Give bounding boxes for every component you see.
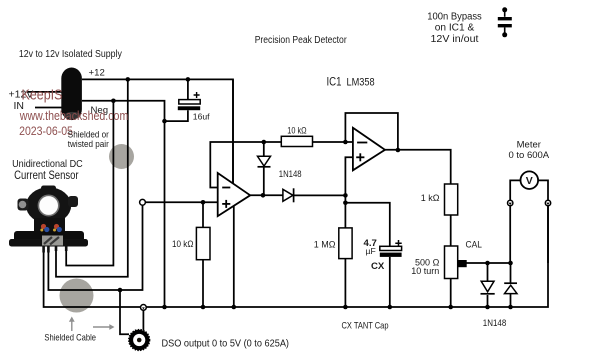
- wire diode D3 leads: [487, 263, 489, 281]
- svg-text:DSO output 0 to 5V (0 to 625: DSO output 0 to 5V (0 to 625A): [162, 339, 290, 350]
- wire CX bottom lead: [389, 257, 391, 307]
- svg-text:2023-06-05: 2023-06-05: [19, 124, 73, 138]
- svg-text:12V in/out: 12V in/out: [431, 34, 479, 45]
- meter M1 voltmeter: [521, 171, 539, 189]
- svg-text:1 kΩ: 1 kΩ: [421, 193, 440, 203]
- wire 1M bottom lead: [344, 259, 346, 307]
- svg-text:Precision Peak Detector: Precision Peak Detector: [255, 35, 348, 46]
- diode D3 1N148 (vertical, anode up): [481, 281, 494, 292]
- wire +12 branch down to sensor: [56, 79, 128, 276]
- op-amp U1b (IC1 LM358 second half): [353, 128, 385, 171]
- svg-text:12v to 12v Isolated Supply: 12v to 12v Isolated Supply: [19, 49, 122, 60]
- svg-text:CX TANT Cap: CX TANT Cap: [342, 321, 389, 331]
- resistor R1 10k feedback (horizontal): [281, 136, 312, 146]
- wire op-amp2 feedback loop: [345, 113, 398, 150]
- svg-text:twisted pair: twisted pair: [68, 138, 109, 149]
- svg-text:Shielded Cable: Shielded Cable: [44, 331, 96, 342]
- wire +12 rail from supply module to corner: [82, 79, 233, 183]
- capacitor C1 16uf polarized: [179, 100, 200, 104]
- wire diode D2 output to op-amp2 plus node: [294, 194, 345, 196]
- wire Neg branch down to sensor: [66, 101, 113, 266]
- svg-text:1N148: 1N148: [279, 169, 302, 179]
- wire op-amp1 V- to ground rail: [233, 206, 235, 307]
- resistor R4 1k (vertical): [445, 184, 458, 215]
- svg-text:16uf: 16uf: [193, 111, 210, 121]
- terminal post on ground rail at DSO: [141, 305, 147, 311]
- wire 10k vertical resistor leads: [202, 202, 204, 227]
- svg-text:Meter: Meter: [517, 139, 541, 150]
- svg-text:V: V: [526, 175, 533, 187]
- wire pot wiper to meter/diodes: [467, 262, 511, 264]
- wire sensor signal to op-amp input terminal: [48, 200, 142, 291]
- wire op-amp1 output: [250, 194, 283, 196]
- resistor R2 10k input (vertical): [196, 227, 210, 259]
- svg-text:KeepIS: KeepIS: [22, 87, 63, 104]
- wire diode D4 leads: [510, 263, 512, 283]
- svg-text:10 kΩ: 10 kΩ: [172, 239, 194, 249]
- svg-text:1 MΩ: 1 MΩ: [314, 239, 336, 249]
- svg-text:LM358: LM358: [347, 76, 375, 88]
- wire op-amp2 plus node vertical: [345, 157, 353, 228]
- wire 1k to pot: [450, 215, 452, 246]
- watermark gray blob upper: [109, 144, 134, 169]
- wire meter right lead: [539, 180, 548, 200]
- wire bottom 0V rail: [44, 206, 548, 307]
- svg-text:CAL: CAL: [466, 239, 483, 250]
- op-amp U1a (IC1 LM358 first half): [218, 173, 251, 216]
- wire DSO shell ground drop: [142, 310, 144, 330]
- watermark gray blob lower: [60, 279, 94, 313]
- resistor R3 1M (vertical): [339, 228, 352, 259]
- terminal post left of meter: [508, 200, 513, 205]
- supply module (black capsule): [61, 68, 82, 121]
- diode D2 1N148 (horizontal, pointing right): [283, 189, 293, 201]
- annotation arrow up to shielded cable: [71, 320, 73, 331]
- wire signal stub down to DSO center pin: [120, 290, 129, 334]
- svg-text:10 kΩ: 10 kΩ: [287, 126, 306, 136]
- svg-text:µF: µF: [366, 246, 376, 256]
- wire op-amp2 output to 1k: [385, 150, 451, 184]
- svg-text:0 to 600A: 0 to 600A: [508, 150, 549, 161]
- wire Neg rail from supply module: [82, 101, 165, 307]
- wire supply module input leads: [27, 91, 62, 93]
- wire CX branch: [345, 203, 389, 247]
- capacitor C2 CX 4.7uF tantalum: [380, 246, 402, 250]
- svg-text:www.thebackshed.com: www.thebackshed.com: [19, 109, 128, 123]
- svg-text:on IC1 &: on IC1 &: [435, 23, 475, 34]
- svg-text:100n Bypass: 100n Bypass: [427, 12, 482, 23]
- diode D4 1N148 (vertical, anode down / reversed): [504, 282, 517, 284]
- potentiometer VR1 500 ohm 10 turn: [445, 246, 458, 279]
- svg-text:+12: +12: [89, 68, 105, 79]
- wire diode D1 leads: [263, 142, 265, 156]
- wire meter left lead: [510, 180, 520, 200]
- wire op-amp1 plus input: [145, 201, 217, 203]
- input terminal circle at op-amp1 plus wire: [140, 199, 146, 205]
- svg-text:IC1: IC1: [327, 75, 342, 88]
- wire 10k feedback resistor to op-amp2 minus: [313, 141, 353, 143]
- wire 16uf bottom lead to 0V line: [165, 110, 188, 121]
- svg-text:1N148: 1N148: [483, 318, 507, 328]
- DSO output connector (phono jack): [131, 332, 147, 348]
- wire 16uf top lead: [187, 79, 189, 99]
- capacitor C3 100n bypass symbol: [504, 10, 506, 35]
- svg-text:CX: CX: [371, 261, 385, 272]
- svg-text:Current Sensor: Current Sensor: [14, 168, 79, 182]
- annotation arrow right to DSO connector: [93, 326, 110, 328]
- wire op-amp1 V+ supply: [232, 79, 234, 183]
- current sensor (photo of toroidal sensor): [9, 186, 88, 253]
- wire op-amp1 minus feedback: [210, 142, 281, 188]
- wire pot bottom to rail: [450, 279, 452, 308]
- terminal post right of meter: [545, 200, 550, 205]
- diode D1 1N148 (vertical, anode up): [258, 156, 271, 166]
- svg-text:10 turn: 10 turn: [411, 266, 439, 276]
